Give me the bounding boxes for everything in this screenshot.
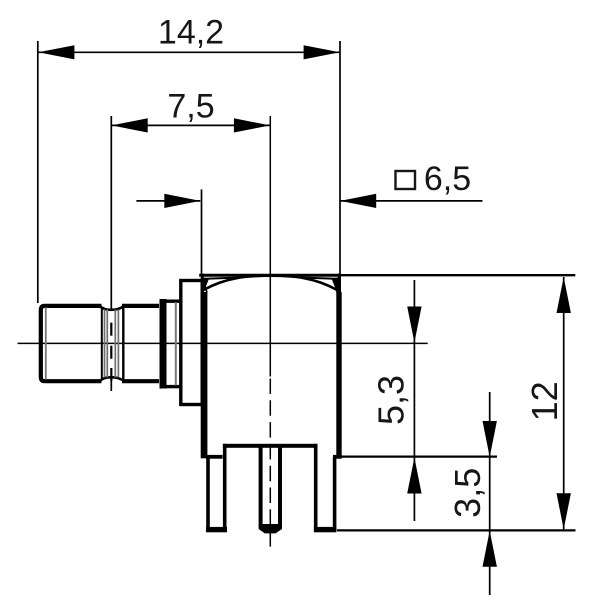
plug barrel section B top edge [122,304,159,308]
horizontal centerline [18,342,428,344]
vertical centerline (solid part, also 7,5 right extension) [269,116,271,377]
extension line left of 7,5 (solid above plug) [110,116,112,309]
dome left corner wedge [201,277,209,292]
dome left tangent line [202,278,240,279]
right leg inner edge [314,444,318,531]
plug groove left wall [101,309,103,379]
svg-text:3,5: 3,5 [447,468,488,518]
plug washer bar (solid) [160,299,167,389]
extension line right of 14,2 and 6,5 [339,41,341,274]
dome right tangent line [301,278,339,279]
body right wall chamfer [337,283,339,293]
dimension 14,2 right arrowhead [304,45,340,59]
dimension 6,5 right tail line [340,200,482,202]
mounting flange plate [181,281,202,405]
svg-text:5,3: 5,3 [371,375,412,425]
plug barrel section B bottom edge [122,379,159,383]
dimension 6,5 left tail line [136,200,200,202]
plug barrel left cap outline [41,306,102,381]
dimension 7,5 left arrowhead [112,118,148,132]
plug thin section top edge [165,300,181,303]
center pin right edge [278,446,282,526]
body left wall thick part [201,292,208,458]
svg-text:6,5: 6,5 [424,160,471,198]
dimension 12 bottom arrowhead (points down) [557,493,571,529]
extension line top (body top to 12 dim) [341,274,575,276]
dome right corner wedge [332,277,340,292]
svg-text:7,5: 7,5 [167,87,214,125]
svg-text:12: 12 [524,381,565,421]
body top edge [199,274,341,277]
dimension 5,3 top arrowhead (points down) [407,307,421,343]
plug thin section edge (gray) [175,302,177,386]
extension line middle (body bottom to 3,5 dim) [333,455,497,457]
dimension 14,2 line [38,51,340,53]
body bottom right step [333,455,342,459]
dimension 3,5 bottom arrowhead (points up) [483,531,497,567]
dimension 5,3 bottom arrowhead (points up) [407,458,421,494]
vertical centerline (dashed part through pin) [269,379,271,549]
body cavity bottom edge [223,444,317,448]
left leg inner edge [223,444,227,531]
left leg bottom edge [206,527,227,532]
plug thin section bottom edge [165,385,181,388]
svg-text:14,2: 14,2 [158,14,224,52]
center pin left edge [259,446,263,526]
dimension 3,5 top arrowhead (points down) [483,421,497,457]
extension line left of 6,5 [201,189,203,276]
body bottom left step [206,455,223,459]
right leg outer edge [333,457,337,531]
dimension 12 line [563,277,565,529]
right leg bottom edge [314,527,337,532]
dimension 7,5 right arrowhead [234,118,270,132]
dimension 6,5 right arrowhead (points left) [340,194,376,208]
body right wall upper thin part [338,274,341,292]
dome arc [203,276,337,290]
dimension 7,5 line [111,124,270,126]
dimension 6,5 left arrowhead (points right) [164,194,200,208]
dimension 3,5 line [489,392,491,595]
dimension 14,2 left arrowhead [38,45,74,59]
left leg outer edge [206,457,210,531]
body left wall upper thin part [201,274,204,292]
extension line bottom (leg bottom to 12 dim) [337,529,576,531]
extension line left of 14,2 [37,41,39,303]
plug left cap inner edge (gray) [45,308,47,380]
dimension 5,3 line [413,280,415,521]
body right wall thick part [336,292,341,458]
plug groove top dip [100,306,125,310]
extension line left of 7,5 (dashed through plug) [110,323,112,336]
dimension 12 top arrowhead (points up) [557,277,571,313]
body left wall chamfer [204,283,208,293]
plug groove right wall [122,307,124,380]
extension line left of 7,5 (solid below plug) [110,381,112,391]
dimension square 6,5 square symbol [396,171,416,189]
center pin tip [259,524,282,533]
plug groove ring edges (gray) [104,310,106,378]
plug groove bottom dip [100,377,125,381]
